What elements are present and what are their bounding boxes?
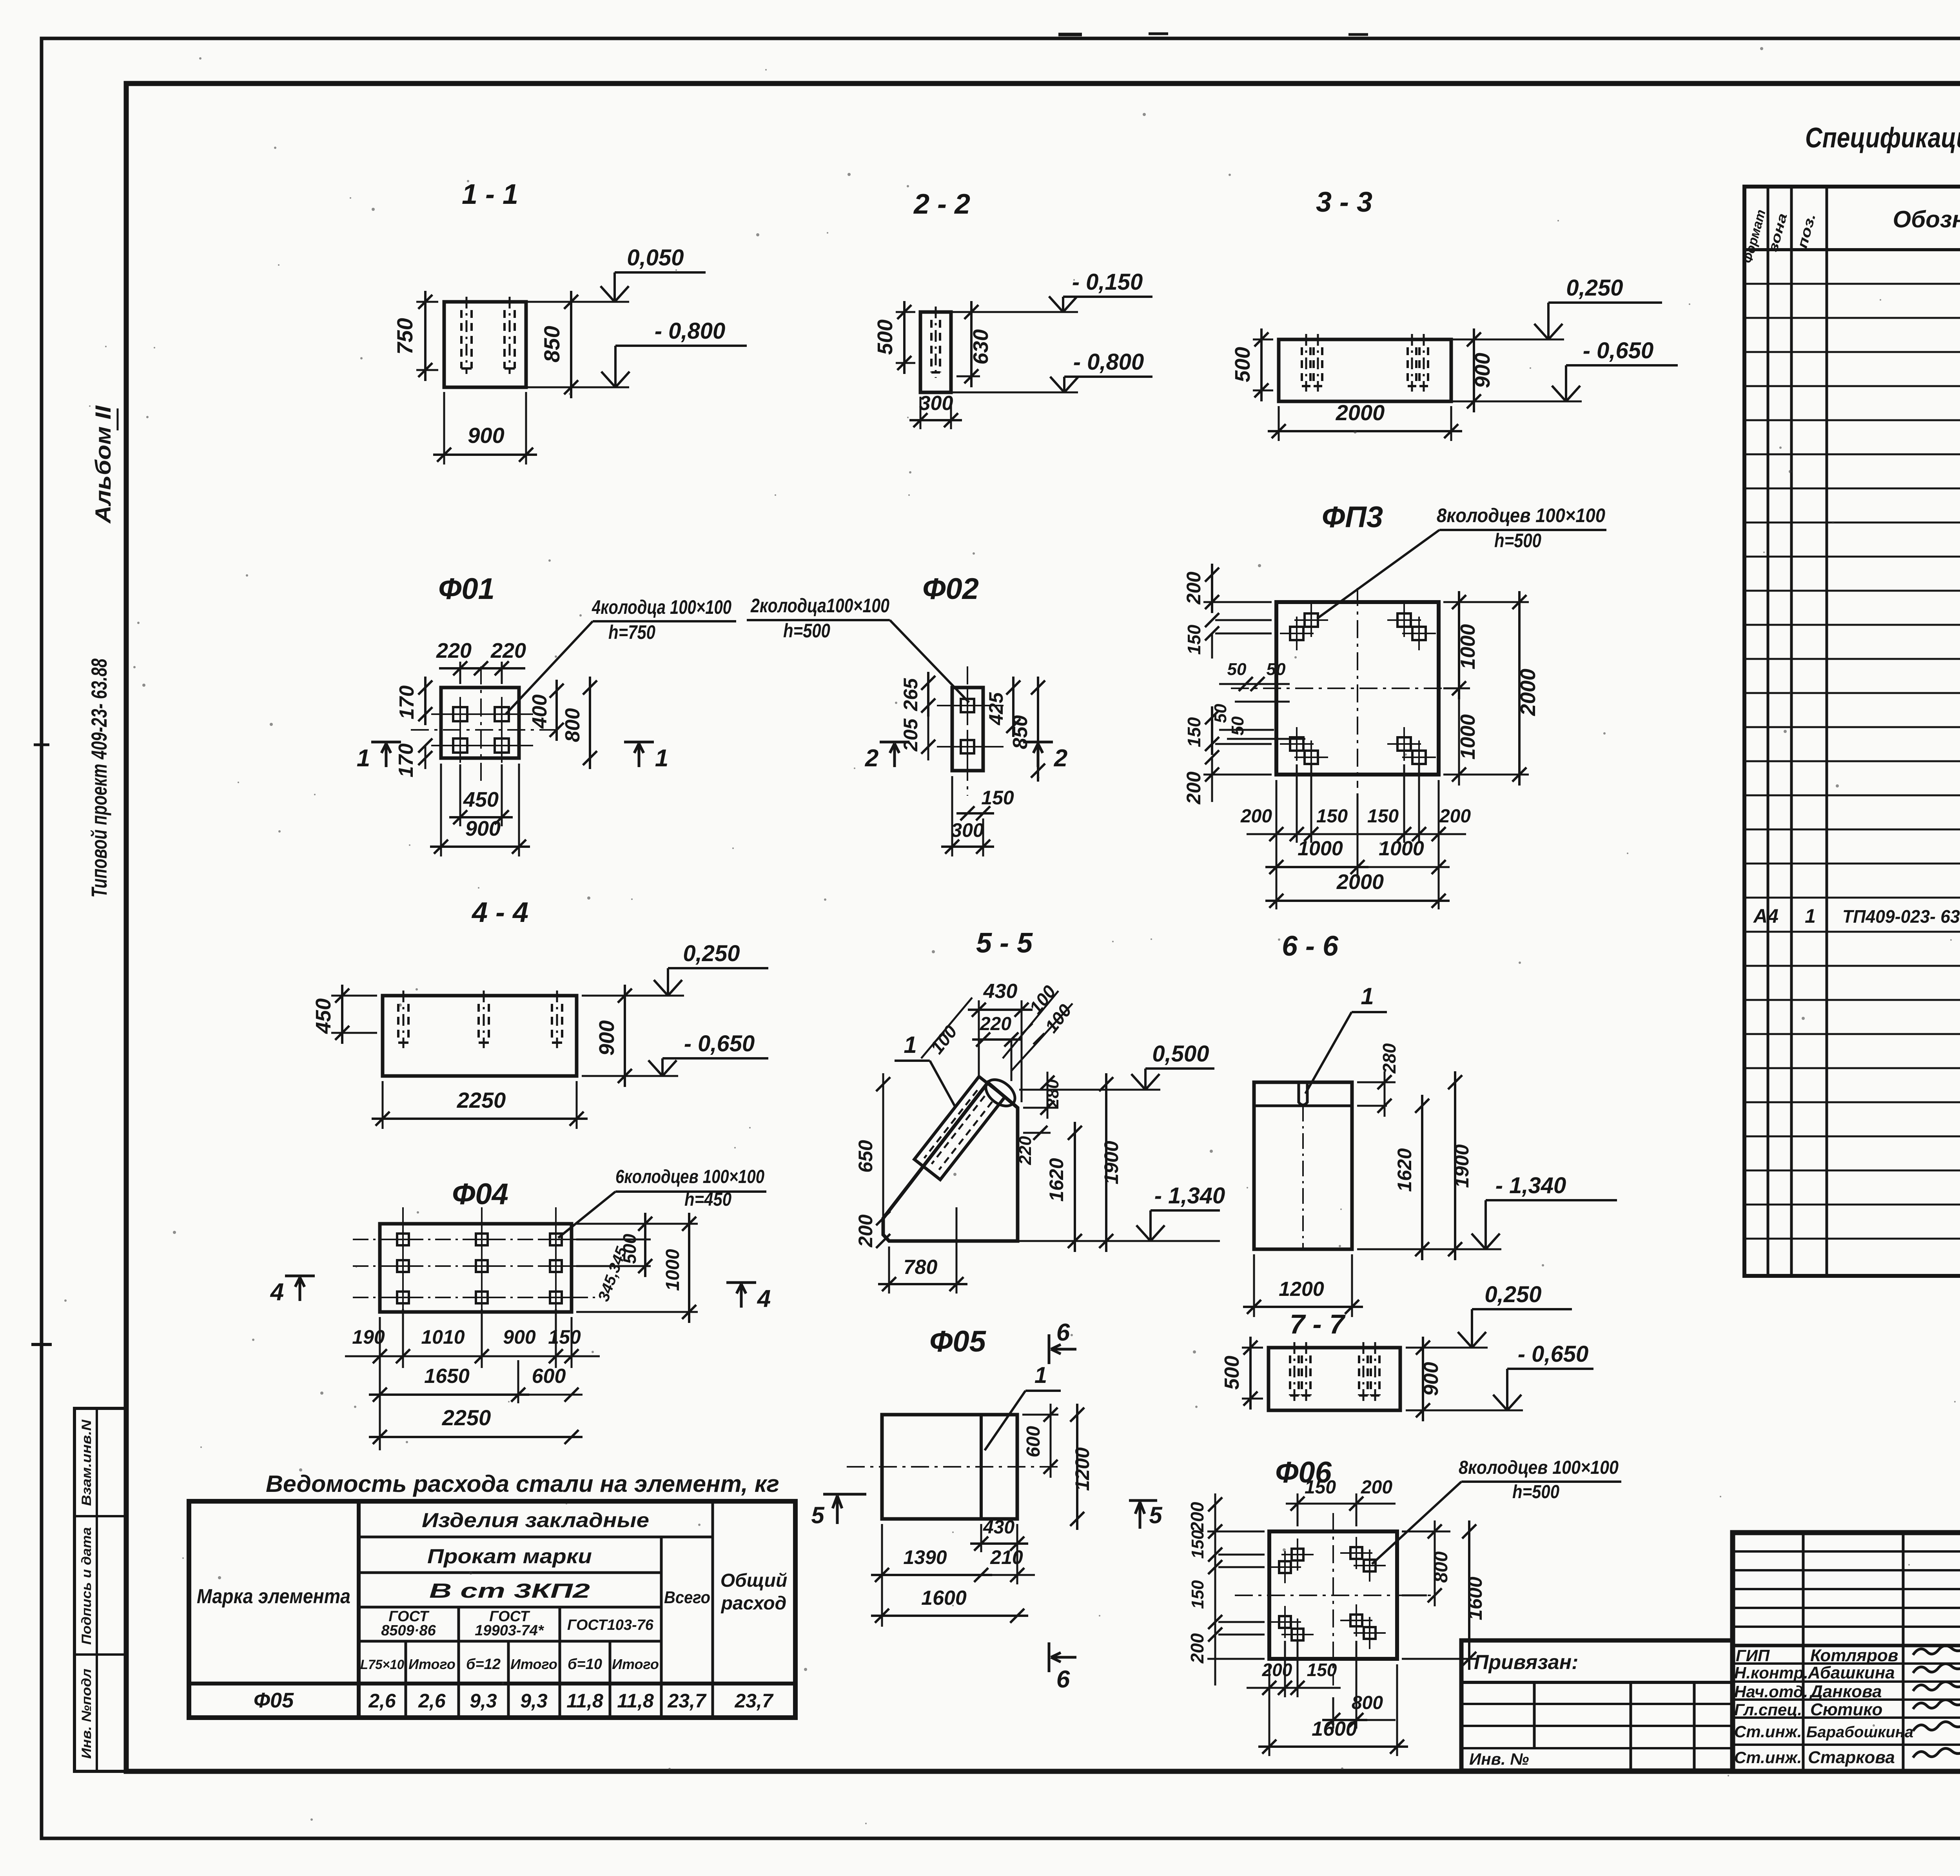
svg-text:850: 850 xyxy=(1009,715,1032,749)
svg-text:2000: 2000 xyxy=(1336,400,1385,425)
dim 850 right (F02) xyxy=(1037,677,1039,782)
well bottom-left (F01) xyxy=(453,738,467,753)
svg-text:6: 6 xyxy=(1056,1666,1070,1693)
svg-text:900: 900 xyxy=(468,423,504,448)
svg-text:200: 200 xyxy=(1439,806,1471,827)
svg-text:Барабошкина: Барабошкина xyxy=(1806,1724,1913,1741)
wells row2 (F04) xyxy=(397,1260,409,1272)
lifting loop (5-5) xyxy=(981,1074,1020,1111)
level mark 0,250 (3-3) xyxy=(1451,339,1564,341)
svg-text:2колодца100×100: 2колодца100×100 xyxy=(750,595,889,617)
svg-text:Итого: Итого xyxy=(510,1656,557,1672)
svg-text:4колодца 100×100: 4колодца 100×100 xyxy=(592,596,731,618)
steel table grid xyxy=(189,1501,795,1718)
F01 foundation plate outline xyxy=(441,688,519,758)
svg-text:- 0,650: - 0,650 xyxy=(1583,338,1654,363)
svg-text:1000: 1000 xyxy=(1457,624,1479,669)
svg-text:А4: А4 xyxy=(1753,905,1779,927)
svg-text:1: 1 xyxy=(1034,1363,1047,1388)
svg-text:150: 150 xyxy=(1188,1580,1207,1609)
svg-text:Взам.инв.N: Взам.инв.N xyxy=(79,1419,94,1506)
svg-text:Типовой проект 409-23- 63.88: Типовой проект 409-23- 63.88 xyxy=(87,658,111,898)
anchor bolt group right (3-3) xyxy=(1406,347,1409,386)
svg-text:1: 1 xyxy=(1805,905,1816,927)
svg-text:150: 150 xyxy=(1188,1530,1207,1559)
F06 top dims 150/200 xyxy=(1297,1493,1299,1526)
well top-left (F01) xyxy=(453,707,467,721)
anchor bolt left (section 1-1) xyxy=(460,310,463,368)
svg-text:Альбом II: Альбом II xyxy=(91,405,115,524)
svg-text:11,8: 11,8 xyxy=(566,1690,603,1712)
dims 1390/210 (F05) xyxy=(881,1524,883,1627)
svg-text:205: 205 xyxy=(900,718,922,752)
level 0,250 (4-4) xyxy=(582,995,684,997)
wells top-right pair (F06) xyxy=(1350,1547,1362,1559)
svg-text:220: 220 xyxy=(980,1014,1011,1034)
anchor bolt group right (7-7) xyxy=(1358,1355,1360,1395)
svg-text:150: 150 xyxy=(1367,806,1399,827)
svg-text:4: 4 xyxy=(270,1279,284,1306)
title block: change-rows region xyxy=(1733,1550,1960,1553)
F04 bottom dims 190/1010/900/150 xyxy=(379,1317,381,1450)
section marker 5 right (F05) xyxy=(1129,1499,1157,1502)
dim 425 right (F02) xyxy=(1012,677,1014,737)
well lower (F02) xyxy=(961,740,974,753)
level mark -0,150 (2-2) xyxy=(951,311,1078,313)
svg-text:Ф02: Ф02 xyxy=(922,572,979,606)
svg-text:1620: 1620 xyxy=(1394,1148,1416,1192)
svg-text:- 0,800: - 0,800 xyxy=(1073,349,1144,375)
svg-text:850: 850 xyxy=(539,326,564,362)
svg-text:200: 200 xyxy=(1262,1660,1292,1680)
svg-text:0,250: 0,250 xyxy=(1485,1282,1541,1307)
section 1-1 foundation outline xyxy=(444,302,526,387)
svg-text:ФП3: ФП3 xyxy=(1322,501,1383,534)
svg-text:800: 800 xyxy=(561,708,584,742)
anchor bolt right (section 1-1) xyxy=(503,310,506,368)
svg-text:50: 50 xyxy=(1228,716,1247,735)
wells row3 (F04) xyxy=(397,1292,409,1303)
svg-text:1000: 1000 xyxy=(1379,837,1424,860)
section 4-4 foundation outline xyxy=(383,996,577,1076)
svg-text:900: 900 xyxy=(595,1020,619,1056)
svg-text:0,500: 0,500 xyxy=(1152,1041,1209,1067)
svg-text:2: 2 xyxy=(865,745,878,772)
section 5-5 pedestal outline xyxy=(883,1083,1018,1241)
section marker 6 top (F05) xyxy=(1048,1334,1051,1364)
svg-text:200: 200 xyxy=(855,1214,877,1248)
level -1,340 (6-6) xyxy=(1357,1248,1501,1250)
title block outer xyxy=(1733,1533,1960,1771)
svg-text:h=750: h=750 xyxy=(608,621,655,643)
wells bottom-right pair (FP3) xyxy=(1397,737,1411,751)
dim 205 left (F02) xyxy=(921,740,935,754)
svg-text:280: 280 xyxy=(1379,1043,1399,1074)
svg-text:Старкова: Старкова xyxy=(1808,1748,1895,1767)
signatures squiggles xyxy=(1913,1646,1960,1655)
svg-text:1010: 1010 xyxy=(421,1326,465,1348)
FP3 right dims 1000/1000/2000 xyxy=(1443,601,1529,603)
F06 left dims 200/150/150/200 xyxy=(1207,1531,1265,1533)
svg-text:900: 900 xyxy=(503,1326,536,1348)
svg-text:Итого: Итого xyxy=(408,1656,456,1672)
dim 750 left (1-1) xyxy=(416,301,438,303)
svg-text:1000: 1000 xyxy=(662,1249,683,1291)
svg-text:ТП409-023- 63.88- КЖИ-ФД-020: ТП409-023- 63.88- КЖИ-ФД-020 xyxy=(1842,906,1960,927)
svg-text:h=500: h=500 xyxy=(1494,530,1541,552)
dim 2000 bottom (3-3) xyxy=(1278,406,1280,441)
svg-text:1200: 1200 xyxy=(1071,1447,1093,1491)
svg-text:1620: 1620 xyxy=(1045,1158,1067,1201)
svg-text:Ст.инж.: Ст.инж. xyxy=(1734,1748,1802,1767)
svg-text:Инв. №подл: Инв. №подл xyxy=(79,1669,94,1759)
svg-text:1: 1 xyxy=(655,745,668,772)
svg-text:200: 200 xyxy=(1187,1633,1207,1664)
svg-text:170: 170 xyxy=(395,744,417,778)
wells top-left pair (FP3) xyxy=(1305,613,1318,627)
inclined anchor plate (5-5) xyxy=(914,1077,1005,1180)
wells bottom-left pair (FP3) xyxy=(1290,737,1303,751)
section marker 5 left (F05) xyxy=(823,1493,866,1496)
dim 600 right (F05) xyxy=(1022,1414,1058,1416)
svg-text:1390: 1390 xyxy=(903,1546,947,1568)
svg-text:200: 200 xyxy=(1187,1502,1207,1532)
svg-text:600: 600 xyxy=(532,1365,566,1388)
FP3 left dims 200/150 xyxy=(1203,601,1272,603)
svg-text:Котляров: Котляров xyxy=(1810,1646,1898,1665)
dim 900 right (4-4) xyxy=(582,995,635,997)
svg-text:4 - 4: 4 - 4 xyxy=(471,897,528,928)
F04 bottom dim 2250 xyxy=(369,1436,583,1438)
svg-text:300: 300 xyxy=(919,392,953,415)
dim 780 bottom (5-5) xyxy=(888,1246,890,1294)
svg-text:В ст 3КП2: В ст 3КП2 xyxy=(429,1580,590,1602)
svg-text:1: 1 xyxy=(357,745,370,772)
svg-text:L75×10: L75×10 xyxy=(360,1657,404,1672)
svg-text:2000: 2000 xyxy=(1336,870,1384,894)
svg-text:ГОСТ103-76: ГОСТ103-76 xyxy=(567,1617,654,1633)
svg-text:2,6: 2,6 xyxy=(368,1690,396,1712)
F05 slab outline xyxy=(882,1415,1017,1519)
svg-text:Сютико: Сютико xyxy=(1810,1700,1882,1719)
anchor bolts (4-4) xyxy=(397,1004,399,1043)
svg-text:Н.контр.: Н.контр. xyxy=(1734,1664,1808,1682)
svg-text:Прокат марки: Прокат марки xyxy=(427,1545,592,1568)
svg-text:300: 300 xyxy=(951,819,984,841)
left margin mini table xyxy=(74,1408,126,1771)
left dims 650/200 (5-5) xyxy=(882,1073,884,1229)
level 0,500 (5-5) xyxy=(1019,1089,1160,1091)
svg-text:1650: 1650 xyxy=(424,1365,470,1388)
svg-text:4: 4 xyxy=(757,1285,771,1312)
level -0,650 (4-4) xyxy=(582,1075,678,1077)
svg-text:650: 650 xyxy=(855,1140,877,1173)
dim 1600 (F05) xyxy=(871,1615,1028,1617)
fold mark left edge xyxy=(31,1343,52,1346)
svg-text:8колодцев 100×100: 8колодцев 100×100 xyxy=(1437,504,1605,526)
section marker 4 right (F04) xyxy=(726,1281,756,1284)
svg-text:Данкова: Данкова xyxy=(1809,1682,1882,1701)
svg-text:50: 50 xyxy=(1267,660,1286,679)
section 2-2 foundation outline xyxy=(920,312,951,392)
svg-text:150: 150 xyxy=(1316,806,1348,827)
svg-text:800: 800 xyxy=(1431,1551,1452,1583)
dim 630 right (2-2) xyxy=(956,311,980,313)
section marker 4 left (F04) xyxy=(285,1275,315,1277)
svg-text:500: 500 xyxy=(873,319,897,355)
svg-text:5 - 5: 5 - 5 xyxy=(976,927,1033,959)
level -1,340 (5-5) xyxy=(1136,1225,1151,1241)
section 7-7 foundation outline xyxy=(1269,1348,1400,1410)
svg-text:Нач.отд.: Нач.отд. xyxy=(1734,1682,1808,1701)
FP3 left dims 150/200 bottom xyxy=(1211,706,1213,755)
fold marks top edge xyxy=(1058,33,1082,36)
svg-text:- 1,340: - 1,340 xyxy=(1495,1173,1566,1198)
svg-text:- 0,150: - 0,150 xyxy=(1072,269,1143,295)
well top-right (F01) xyxy=(495,707,509,721)
F01 centre axes xyxy=(411,729,557,731)
svg-text:500: 500 xyxy=(1231,347,1254,382)
dim 450 left (4-4) xyxy=(331,995,377,997)
dim 430 (F05) xyxy=(980,1524,982,1552)
title block: role rows xyxy=(1733,1662,1960,1665)
svg-text:h=500: h=500 xyxy=(783,620,830,642)
svg-text:200: 200 xyxy=(1361,1477,1392,1498)
F02 foundation plate outline xyxy=(952,688,983,771)
svg-text:220: 220 xyxy=(1016,1136,1035,1165)
dim 1900 right (6-6) xyxy=(1454,1071,1456,1260)
wells bottom-right pair (F06) xyxy=(1350,1615,1362,1626)
svg-text:900: 900 xyxy=(1420,1362,1443,1396)
dim 220/220 top (F01) xyxy=(459,662,461,684)
svg-text:600: 600 xyxy=(1023,1426,1044,1457)
svg-text:23,7: 23,7 xyxy=(734,1690,774,1712)
dim 1620 (5-5) xyxy=(1074,1122,1076,1252)
svg-text:400: 400 xyxy=(528,695,551,729)
svg-text:450: 450 xyxy=(312,998,335,1034)
dim 500 left (7-7) xyxy=(1242,1347,1263,1349)
section marker 2 right (F02) xyxy=(1023,741,1053,744)
svg-text:1600: 1600 xyxy=(921,1587,967,1609)
section 3-3 foundation outline xyxy=(1279,339,1451,401)
F06 bottom dims 200/150 xyxy=(1284,1641,1286,1697)
upper slab line (6-6) xyxy=(1254,1105,1352,1107)
svg-text:3 - 3: 3 - 3 xyxy=(1316,187,1372,218)
svg-text:6: 6 xyxy=(1056,1319,1070,1346)
svg-text:б=10: б=10 xyxy=(568,1656,602,1673)
wells row1 (F04) xyxy=(397,1234,409,1245)
svg-text:Ф01: Ф01 xyxy=(438,572,495,606)
svg-text:1900: 1900 xyxy=(1451,1144,1473,1188)
svg-text:1600: 1600 xyxy=(1312,1718,1357,1740)
svg-text:9,3: 9,3 xyxy=(520,1690,548,1712)
wells bottom-left pair (F06) xyxy=(1279,1616,1291,1628)
dim 900 right (7-7) xyxy=(1406,1347,1432,1349)
svg-text:ГИП: ГИП xyxy=(1736,1646,1770,1665)
svg-text:19903-74*: 19903-74* xyxy=(475,1622,544,1639)
svg-text:Спецификация фундаментов Ф0: Спецификация фундаментов Ф01÷Ф06 xyxy=(1805,122,1960,154)
svg-text:Ст.инж.: Ст.инж. xyxy=(1734,1722,1802,1741)
section marker 2 left (F02) xyxy=(880,741,909,744)
specification table grid xyxy=(1744,187,1960,1276)
svg-text:9,3: 9,3 xyxy=(470,1690,497,1712)
svg-text:5: 5 xyxy=(1149,1502,1163,1528)
dim 2250 bottom (4-4) xyxy=(382,1081,384,1129)
FP3 centre axes xyxy=(1231,688,1450,689)
anchor bolt group left (3-3) xyxy=(1301,347,1303,386)
svg-text:Гл.спец.: Гл.спец. xyxy=(1734,1700,1802,1719)
F04 centre axes xyxy=(353,1239,600,1240)
dim 1200 bottom (6-6) xyxy=(1253,1254,1255,1317)
svg-text:- 0,800: - 0,800 xyxy=(655,318,726,344)
F04 foundation plate outline xyxy=(380,1224,572,1312)
section marker 1 left (F01) xyxy=(371,741,401,744)
well bottom-right (F01) xyxy=(495,738,509,753)
svg-text:200: 200 xyxy=(1240,806,1272,827)
FP3 bottom dims 1000/1000 xyxy=(1357,793,1359,878)
svg-text:2250: 2250 xyxy=(442,1405,491,1430)
svg-text:200: 200 xyxy=(1183,771,1205,805)
dim 300 bottom (2-2) xyxy=(920,397,922,429)
FP3 foundation slab outline xyxy=(1276,602,1439,775)
svg-text:150: 150 xyxy=(548,1326,581,1348)
level mark -0,650 (3-3) xyxy=(1451,401,1582,403)
svg-text:8509·86: 8509·86 xyxy=(381,1622,436,1639)
level -0,650 (7-7) xyxy=(1406,1410,1523,1412)
svg-text:Итого: Итого xyxy=(612,1656,659,1672)
wells top-left pair (F06) xyxy=(1292,1549,1303,1560)
dim 900 bottom (1-1) xyxy=(443,392,445,464)
svg-text:8колодцев 100×100: 8колодцев 100×100 xyxy=(1459,1457,1619,1478)
svg-text:800: 800 xyxy=(1352,1693,1383,1713)
privyazan block xyxy=(1461,1640,1733,1771)
svg-text:Абашкина: Абашкина xyxy=(1808,1663,1895,1682)
F02 centre axes xyxy=(967,666,968,796)
svg-text:50: 50 xyxy=(1227,660,1247,679)
svg-text:11,8: 11,8 xyxy=(617,1690,654,1712)
svg-text:170: 170 xyxy=(396,686,418,720)
svg-text:б=12: б=12 xyxy=(466,1656,501,1673)
svg-text:Общий: Общий xyxy=(720,1570,788,1591)
svg-text:Ф05: Ф05 xyxy=(929,1325,987,1358)
svg-text:1000: 1000 xyxy=(1457,714,1479,760)
svg-text:Марка элемента: Марка элемента xyxy=(197,1585,350,1608)
svg-text:h=500: h=500 xyxy=(1512,1482,1559,1502)
svg-text:750: 750 xyxy=(392,318,417,354)
dim 220 neck (5-5) xyxy=(1023,1132,1051,1134)
svg-text:Инв. №: Инв. № xyxy=(1469,1750,1529,1768)
F06 bottom dim 1600 xyxy=(1396,1664,1398,1756)
svg-text:Ведомость расхода стали на: Ведомость расхода стали на элемент, кг xyxy=(266,1471,779,1497)
svg-text:280: 280 xyxy=(1043,1079,1062,1109)
F04 bottom dims 1650/600 xyxy=(517,1360,519,1403)
centre axis (6-6) xyxy=(1302,1106,1304,1249)
svg-text:425: 425 xyxy=(985,692,1007,726)
svg-text:6 - 6: 6 - 6 xyxy=(1282,931,1339,962)
dim 900 bottom (F01) xyxy=(440,764,442,856)
svg-text:1600: 1600 xyxy=(1464,1577,1486,1620)
svg-text:1 - 1: 1 - 1 xyxy=(462,179,518,210)
svg-text:6колодцев 100×100: 6колодцев 100×100 xyxy=(615,1167,764,1187)
level mark -0,800 (2-2) xyxy=(951,392,1078,394)
dim 500 left (2-2) xyxy=(896,311,915,313)
dim 900 right (3-3) xyxy=(1456,339,1483,341)
svg-text:630: 630 xyxy=(969,329,993,365)
dim 850 right (1-1) xyxy=(531,301,588,303)
svg-text:150: 150 xyxy=(981,787,1014,809)
svg-text:- 1,340: - 1,340 xyxy=(1154,1183,1225,1208)
anchor bolt group left (7-7) xyxy=(1289,1355,1291,1395)
svg-text:1: 1 xyxy=(904,1032,916,1058)
svg-text:1: 1 xyxy=(1361,983,1374,1009)
svg-text:2: 2 xyxy=(1054,745,1067,772)
dim 280 right (6-6) xyxy=(1357,1081,1396,1083)
svg-text:500: 500 xyxy=(619,1234,640,1264)
svg-text:150: 150 xyxy=(1305,1477,1336,1498)
svg-text:2000: 2000 xyxy=(1516,669,1540,716)
FP3 bottom dims 200/150/150/200 xyxy=(1276,780,1278,909)
svg-text:Ф04: Ф04 xyxy=(452,1177,508,1211)
dim 400 right (F01) xyxy=(555,680,558,741)
dim 500 left (3-3) xyxy=(1253,339,1273,341)
svg-text:430: 430 xyxy=(983,980,1018,1003)
svg-text:Привязан:: Привязан: xyxy=(1474,1651,1578,1674)
section 6-6 foundation outline xyxy=(1254,1082,1352,1249)
dim 300 bottom (F02) xyxy=(951,776,953,856)
F06 centre axes xyxy=(1235,1595,1431,1596)
dim 1620 right (6-6) xyxy=(1421,1095,1423,1260)
svg-text:Ф05: Ф05 xyxy=(254,1689,294,1712)
level mark -0,800 (1-1) xyxy=(526,386,629,388)
F05 centre axis xyxy=(847,1466,1058,1468)
svg-text:23,7: 23,7 xyxy=(667,1690,707,1712)
inclined bolts dashed (5-5) xyxy=(924,1090,992,1170)
dim 280 neck (5-5) xyxy=(1023,1107,1058,1109)
section marker 1 right (F01) xyxy=(624,741,654,744)
dim 170/170 left (F01) xyxy=(424,677,426,725)
svg-text:2,6: 2,6 xyxy=(418,1690,446,1712)
svg-text:150: 150 xyxy=(1184,624,1204,655)
svg-text:2 - 2: 2 - 2 xyxy=(913,189,970,220)
svg-text:1900: 1900 xyxy=(1100,1141,1122,1184)
svg-text:Подпись и дата: Подпись и дата xyxy=(79,1527,94,1645)
svg-text:50: 50 xyxy=(1211,704,1230,723)
level 0,250 (7-7) xyxy=(1406,1347,1488,1349)
dim 220 (5-5) xyxy=(972,1038,1022,1041)
dim 450 bottom (F01) xyxy=(459,764,461,826)
svg-text:450: 450 xyxy=(463,788,499,811)
svg-text:500: 500 xyxy=(1221,1356,1243,1390)
well upper (F02) xyxy=(961,699,974,712)
dim 1200 right (F05) xyxy=(1076,1404,1078,1530)
svg-text:150: 150 xyxy=(1307,1660,1337,1680)
svg-text:900: 900 xyxy=(1471,353,1494,388)
svg-text:1000: 1000 xyxy=(1298,837,1343,860)
svg-text:2250: 2250 xyxy=(457,1088,506,1112)
wells top-right pair (FP3) xyxy=(1397,613,1411,627)
svg-text:430: 430 xyxy=(983,1517,1014,1538)
svg-text:расход: расход xyxy=(720,1593,787,1614)
svg-text:780: 780 xyxy=(904,1256,938,1279)
svg-text:Всего: Всего xyxy=(664,1588,710,1607)
svg-text:7 - 7: 7 - 7 xyxy=(1290,1309,1346,1339)
F06 right dims 800/1600 xyxy=(1402,1531,1450,1533)
svg-text:220: 220 xyxy=(436,639,472,662)
dim 1900 (5-5) xyxy=(1105,1073,1107,1252)
F05 inner line 430 strip xyxy=(980,1415,983,1519)
F06 slab outline xyxy=(1269,1531,1397,1659)
svg-text:0,250: 0,250 xyxy=(1566,275,1623,301)
